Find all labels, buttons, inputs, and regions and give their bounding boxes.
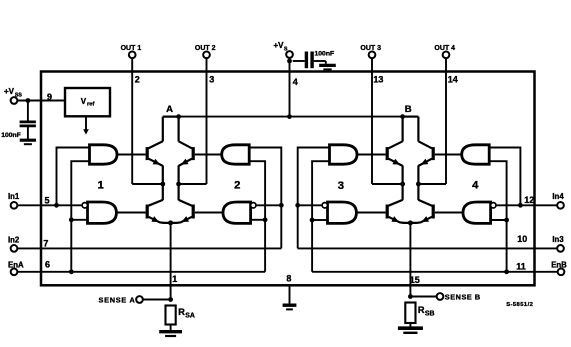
svg-text:S: S (284, 46, 288, 52)
junction gate1 lower AND input (69, 217, 74, 222)
IC package outline (41, 72, 535, 286)
svg-text:OUT 3: OUT 3 (360, 45, 381, 52)
wire gate1 lower output to Q3 base (116, 212, 145, 214)
AND gate 2 upper (U2A) (222, 145, 250, 164)
svg-text:V: V (81, 97, 87, 106)
svg-text:4: 4 (293, 77, 298, 87)
resistor RSA (166, 306, 176, 325)
svg-text:ref: ref (87, 102, 94, 108)
svg-text:10: 10 (517, 234, 527, 244)
svg-text:SB: SB (425, 311, 435, 318)
bridge B mid columns (402, 166, 404, 201)
wire gate3 upper output to Q5 base (357, 154, 386, 156)
svg-text:OUT 4: OUT 4 (434, 45, 455, 52)
svg-text:R: R (418, 305, 425, 315)
wire +Vs pin 4 vertical (289, 58, 291, 117)
wire OUT2 vertical (206, 58, 208, 184)
junction EnB branch (504, 269, 509, 274)
junction out-left A (160, 182, 165, 187)
wire to gate2 lower AND B input (251, 219, 266, 221)
transistor Q7 (bottom-left) (386, 205, 389, 219)
AND gate 1 upper (U1A) (90, 145, 118, 164)
wire to SENSE A terminal (143, 299, 171, 301)
svg-text:100nF: 100nF (1, 132, 21, 139)
wire In4 to gate4 top input (489, 148, 520, 206)
wire OUT2 to bridge (179, 183, 207, 185)
wire sense B (pin 15) (409, 223, 411, 297)
supply rail from pin 4 (179, 116, 403, 118)
transistor Q4 (bottom-right) (192, 205, 195, 219)
svg-text:15: 15 (410, 275, 420, 285)
svg-text:3: 3 (209, 75, 214, 85)
bridge B collector risers (402, 117, 404, 142)
wire C2 to ground (314, 60, 326, 62)
junction pin4/rail (287, 114, 292, 119)
svg-text:6: 6 (45, 259, 50, 269)
wire gate4 upper output to Q6 base (435, 154, 462, 156)
+Vs supply terminal (286, 51, 293, 58)
inverter bubble gate 2 lower (251, 203, 256, 208)
terminal In3 (557, 245, 564, 252)
wire EnB riser to gate3 (312, 161, 329, 272)
bridge B top segment (403, 115, 419, 117)
capacitor C2 100nF (305, 52, 308, 69)
svg-text:2: 2 (234, 180, 240, 192)
svg-text:SA: SA (185, 313, 195, 320)
wire to SENSE B terminal (410, 296, 437, 298)
junction out-right A (176, 182, 181, 187)
junction sense B node (408, 294, 413, 299)
svg-text:1: 1 (172, 274, 177, 284)
wire gate2 upper output to Q2 base (195, 154, 222, 156)
AND gate 3 upper (U3A) (330, 145, 358, 164)
wire RSB to ground (409, 323, 411, 327)
svg-text:+V: +V (274, 41, 285, 50)
transistor Q8 (bottom-right) (432, 205, 435, 219)
wire bubble input gate3 (298, 204, 322, 206)
junction In4 branch (518, 203, 523, 208)
+Vss supply terminal (11, 97, 18, 104)
transistor Q1 (top-left) (146, 147, 149, 160)
terminal EnB (558, 268, 565, 275)
wire In3 riser to gate3 (298, 148, 330, 249)
terminal OUT3 (369, 51, 376, 58)
wire RSA to ground (170, 325, 172, 331)
svg-text:In2: In2 (8, 235, 20, 244)
transistor Q3 (bottom-left) (146, 205, 149, 219)
svg-text:S-5851/2: S-5851/2 (506, 302, 533, 308)
wire In1 (pin 5) (17, 204, 82, 206)
junction EnA branch (69, 269, 74, 274)
bridge A top segment (163, 115, 179, 117)
terminal In2 (11, 245, 18, 252)
svg-text:8: 8 (286, 273, 291, 283)
svg-text:3: 3 (338, 180, 344, 192)
svg-text:In4: In4 (552, 192, 564, 201)
wire to gate4 lower AND B input (491, 219, 507, 221)
terminal EnA (11, 268, 18, 275)
wire to gate1 lower AND B input (71, 219, 87, 221)
inverter bubble gate 1 lower (82, 203, 87, 208)
ground (C2) (319, 64, 336, 67)
svg-text:4: 4 (472, 179, 479, 191)
svg-text:In3: In3 (552, 235, 564, 244)
capacitor C1 100nF (27, 101, 29, 122)
resistor RSB (405, 303, 415, 324)
wire OUT3 vertical (371, 58, 373, 184)
svg-text:B: B (405, 104, 412, 115)
junction out-right B (416, 182, 421, 187)
node junction +Vs cap (287, 59, 292, 64)
svg-text:EnB: EnB (551, 260, 567, 269)
junction emitter node A (168, 220, 173, 225)
wire In2 (pin 7) (17, 247, 281, 249)
junction Vss/C1 (26, 98, 31, 103)
transistor Q6 (top-right) (432, 147, 435, 160)
wire pin 9 (17, 100, 65, 102)
junction sense A node (168, 297, 173, 302)
svg-text:SS: SS (15, 92, 22, 98)
wire OUT1 vertical (131, 58, 133, 184)
wire gate3 lower output to Q7 base (356, 212, 385, 214)
junction In3 / gate3 bubble input (295, 203, 300, 208)
terminal In4 (557, 202, 564, 209)
terminal In1 (11, 202, 18, 209)
wire EnA (pin 6) (17, 271, 265, 273)
wire OUT3 to bridge (372, 183, 403, 185)
svg-text:+V: +V (4, 87, 15, 96)
junction gate3 lower AND input (310, 218, 315, 223)
wire gate4 lower output to Q8 base (435, 212, 463, 214)
ground (RSB) (398, 326, 423, 330)
svg-text:A: A (166, 104, 173, 115)
wire OUT1 to bridge (132, 183, 163, 185)
svg-text:14: 14 (448, 74, 458, 84)
transistor Q2 (top-right) (192, 147, 195, 160)
inverter bubble gate 4 lower (491, 203, 496, 208)
ground (pin 8) (283, 304, 297, 307)
svg-text:13: 13 (373, 74, 383, 84)
wire sense A (pin 1) (170, 223, 172, 300)
wire gate1 upper output to Q1 base (117, 154, 146, 156)
terminal OUT4 (443, 51, 450, 58)
AND gate 4 upper (U4A) (462, 145, 490, 164)
svg-text:9: 9 (47, 92, 52, 102)
terminal OUT2 (203, 51, 210, 58)
svg-text:7: 7 (43, 239, 48, 249)
wire bubble input gate2 (256, 204, 281, 206)
wire to gate3 lower AND B input (312, 219, 327, 221)
junction node B (400, 114, 405, 119)
junction node A (176, 114, 181, 119)
svg-text:EnA: EnA (8, 260, 24, 269)
svg-text:12: 12 (524, 195, 534, 205)
wire In3 (pin 10) (298, 247, 558, 249)
wire In1 to gate1 top input (57, 148, 90, 206)
svg-text:11: 11 (516, 262, 526, 272)
svg-text:SENSE B: SENSE B (445, 292, 481, 301)
wire In4 (pin 12) (495, 204, 557, 206)
wire OUT4 vertical (445, 58, 447, 184)
junction emitter node B (408, 220, 413, 225)
svg-text:1: 1 (98, 180, 104, 192)
wire OUT4 to bridge (418, 183, 446, 185)
wire gate2 lower output to Q4 base (195, 212, 223, 214)
wire EnB to gate4 inputs (489, 161, 506, 272)
Vref output arrow (85, 116, 87, 130)
bridge A mid columns (162, 166, 164, 201)
junction out-left B (400, 182, 405, 187)
svg-text:OUT 1: OUT 1 (121, 45, 142, 52)
terminal OUT1 (129, 51, 136, 58)
svg-text:5: 5 (45, 195, 50, 205)
wire In2 riser to gate2 (249, 148, 281, 249)
AND gate 3 lower (U3B) (328, 202, 357, 223)
ground (C1) (20, 139, 36, 142)
ground (RSA) (159, 330, 182, 333)
wire EnA riser to gate2 (249, 161, 265, 272)
junction gate2 lower AND input (263, 217, 268, 222)
svg-text:OUT 2: OUT 2 (195, 45, 216, 52)
wire ground pin 8 (289, 285, 291, 303)
terminal SENSE B (437, 293, 444, 300)
voltage reference block Vref (65, 88, 110, 116)
junction In1 branch (54, 203, 59, 208)
svg-text:R: R (178, 307, 185, 317)
junction In2 / gate2 bubble input (279, 203, 284, 208)
AND gate 2 lower (U2B) (223, 202, 251, 223)
terminal SENSE A (136, 296, 143, 303)
wire EnB (pin 11) (312, 271, 558, 273)
bridge A collector risers (162, 117, 164, 142)
svg-text:2: 2 (135, 75, 140, 85)
junction gate4 lower AND input (504, 218, 509, 223)
inverter bubble gate 3 lower (322, 203, 327, 208)
svg-text:SENSE A: SENSE A (98, 295, 135, 304)
wire +Vs to C2 (293, 60, 305, 62)
AND gate 4 lower (U4B) (463, 202, 491, 223)
svg-text:In1: In1 (8, 192, 20, 201)
transistor Q5 (top-left) (386, 147, 389, 160)
svg-text:100nF: 100nF (315, 51, 335, 58)
AND gate 1 lower (U1B) (88, 202, 117, 223)
wire EnA to gate1 inputs (71, 161, 89, 272)
